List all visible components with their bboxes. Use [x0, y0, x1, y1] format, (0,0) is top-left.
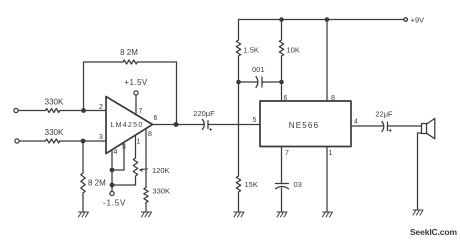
pin 7 wire — [135, 96, 137, 116]
wire R7 to node H — [238, 56, 240, 82]
wire op-amp output — [153, 124, 201, 126]
wire J1 to R1 — [18, 110, 45, 112]
pin 7 label — [139, 108, 143, 115]
capacitor C4 22uF — [375, 110, 393, 132]
svg-text:15K: 15K — [245, 180, 258, 189]
wire rail to pin 8 — [326, 20, 328, 102]
ground (under R9) — [234, 212, 244, 217]
pin 2 label — [99, 104, 103, 111]
svg-text:+1.5V: +1.5V — [124, 78, 147, 87]
pin 6 label — [154, 115, 158, 122]
wire R6 to ground — [145, 203, 147, 213]
svg-text:03: 03 — [294, 180, 302, 189]
pin 5 label (NE566) — [253, 117, 257, 124]
svg-text:220μF: 220μF — [193, 109, 215, 118]
wire node B down to R3 — [82, 143, 84, 173]
terminal -1.5V — [103, 191, 126, 207]
svg-text:7: 7 — [139, 108, 143, 115]
svg-text:1: 1 — [329, 150, 333, 157]
wire pin 8 drop — [145, 129, 147, 188]
svg-text:330K: 330K — [45, 98, 64, 107]
resistor R9 15K — [236, 176, 258, 192]
svg-text:330K: 330K — [153, 187, 171, 196]
wire R3 to ground — [82, 193, 84, 212]
pin 8 label — [148, 131, 152, 138]
node G (rail/pin8) — [325, 17, 330, 22]
wire pin 4 output — [351, 125, 383, 127]
svg-text:6: 6 — [154, 115, 158, 122]
capacitor C2 .001 — [239, 65, 282, 88]
terminal +1.5V — [124, 78, 147, 95]
svg-text:1: 1 — [137, 139, 141, 146]
svg-text:4: 4 — [354, 119, 358, 126]
svg-text:LM4250: LM4250 — [110, 122, 143, 129]
pin 6 label (NE566) — [284, 95, 288, 102]
wire rail corner down to R7 — [238, 20, 240, 41]
svg-text:NE566: NE566 — [289, 121, 319, 130]
resistor R4 8.2M (feedback) — [120, 48, 138, 64]
speaker LS1 — [422, 119, 435, 139]
svg-text:-1.5V: -1.5V — [103, 199, 126, 208]
wire node H down crossing to R9 — [238, 82, 240, 176]
node D (-1.5V node) — [110, 183, 115, 188]
wire pin 1 drop to ground — [326, 147, 328, 213]
wire feedback right vertical to output node — [137, 62, 176, 125]
pin 1 label (NE566) — [329, 150, 333, 157]
pin 8 label (NE566) — [331, 95, 335, 102]
capacitor C3 .03 — [276, 180, 302, 189]
wire pin 7 drop — [281, 147, 283, 184]
wire J2 to R2 — [19, 140, 45, 142]
ground (under pin 1) — [323, 212, 333, 217]
pin 1 label — [137, 139, 141, 146]
potentiometer R5 120K — [133, 158, 169, 176]
input terminal J1 (top) — [14, 108, 18, 112]
top rail +9V — [239, 19, 405, 21]
input terminal J2 (bottom) — [15, 139, 19, 143]
svg-text:1.5K: 1.5K — [244, 46, 259, 55]
svg-text:120K: 120K — [152, 166, 170, 175]
resistor R8 10K — [279, 40, 300, 56]
node A (feedback junction, pin 2) — [81, 108, 86, 113]
wire R1 to pin2 node — [60, 110, 106, 112]
IC U2 NE566 — [260, 101, 351, 147]
wire feedback left vertical — [84, 62, 124, 111]
ground (under R6) — [142, 212, 152, 217]
svg-text:8 2M: 8 2M — [120, 48, 138, 57]
wire pin 5 drop — [112, 143, 124, 171]
svg-text:22μF: 22μF — [375, 110, 393, 119]
svg-text:7: 7 — [285, 150, 289, 157]
capacitor C1 220uF — [193, 109, 215, 131]
pin 3 label — [99, 134, 103, 141]
node C (pins 4-5 join) — [110, 168, 115, 173]
wire 220uF left lead — [200, 124, 204, 126]
resistor R2 330K (bottom input) — [45, 128, 64, 143]
wire R9 to ground — [238, 192, 240, 212]
node F (rail/10K) — [279, 17, 284, 22]
wire R8 to node I to pin 6 — [281, 56, 283, 101]
svg-text:SeekIC.com: SeekIC.com — [410, 227, 457, 237]
svg-text:10K: 10K — [287, 46, 300, 55]
wire 10K branch — [281, 20, 283, 41]
wire speaker to ground — [418, 133, 422, 210]
node I (.001 right) — [279, 80, 284, 85]
terminal +9V — [404, 16, 424, 25]
svg-text:001: 001 — [252, 65, 265, 74]
svg-text:330K: 330K — [45, 128, 64, 137]
ground (under R3) — [79, 212, 89, 217]
svg-text:3: 3 — [99, 134, 103, 141]
wire node C to -1.5V — [111, 170, 113, 191]
wire pot bottom to node D — [112, 176, 136, 185]
resistor R7 1.5K — [236, 40, 259, 56]
svg-text:2: 2 — [99, 104, 103, 111]
watermark SeekIC.com — [410, 227, 457, 237]
node B (pin 3 divider junction) — [81, 139, 86, 144]
wire C4 to speaker — [388, 125, 422, 127]
resistor R1 330K (top input) — [45, 98, 64, 113]
svg-text:4: 4 — [114, 149, 118, 156]
svg-text:8 2M: 8 2M — [88, 179, 106, 188]
wire C3 to ground — [281, 188, 283, 212]
ground (under speaker) — [413, 210, 423, 215]
wire pin 4 drop — [111, 150, 113, 170]
pin 5 label — [122, 144, 126, 151]
svg-text:8: 8 — [148, 131, 152, 138]
wire C1 to NE566 pin 5 — [208, 124, 260, 126]
pin 4 label (NE566) — [354, 119, 358, 126]
resistor R3 8.2M (to ground) — [81, 173, 106, 193]
pin 7 label (NE566) — [285, 150, 289, 157]
node E (output/feedback junction) — [174, 122, 179, 127]
ground (under C3) — [277, 212, 287, 217]
wire R2 to pin3 node — [60, 140, 106, 142]
resistor R6 330K (pin 8) — [144, 187, 170, 203]
pin 4 label — [114, 149, 118, 156]
node H (.001 left) — [236, 80, 241, 85]
op-amp U1 LM4250 — [106, 97, 153, 154]
wire pin 1 drop — [135, 136, 137, 158]
svg-text:+9V: +9V — [411, 16, 425, 25]
svg-text:5: 5 — [253, 117, 257, 124]
